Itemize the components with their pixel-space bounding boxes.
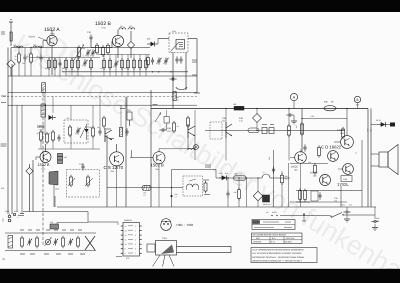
IF transformer box1: [64, 117, 88, 143]
vertical x126: [125, 97, 127, 207]
capacitor C1: [22, 54, 27, 65]
wire col stubs A: [18, 47, 41, 76]
pot dark: [233, 103, 244, 110]
resistor R4: [54, 58, 57, 70]
svg-text:C S 12/70: C S 12/70: [104, 165, 124, 170]
svg-text:1502 B: 1502 B: [38, 163, 51, 167]
diode D4 right: [371, 119, 395, 127]
svg-text:14: 14: [125, 225, 127, 228]
wire y130: [205, 130, 345, 132]
capsule 49E2: [234, 172, 247, 180]
resistor R17: [139, 58, 142, 70]
wire x341: [340, 186, 342, 207]
label C304: [5, 210, 18, 213]
cluster stubs: [53, 97, 127, 130]
svg-text:1602: 1602: [37, 125, 45, 129]
svg-text:C302: C302: [341, 204, 345, 207]
svg-text:6: 6: [135, 248, 136, 251]
capacitor C3: [58, 60, 61, 67]
transistor Q8 output: [334, 108, 353, 149]
gang X symbol: [85, 236, 95, 250]
svg-text:C56: C56: [175, 193, 178, 196]
svg-text:C D 16022: C D 16022: [321, 144, 342, 149]
mid row stubs: [225, 108, 289, 161]
trimmer C11: [153, 105, 162, 123]
svg-text:10: 10: [125, 243, 127, 246]
wire col stubs B: [49, 48, 91, 77]
IF box row3: [183, 176, 203, 196]
mid bus y108: [151, 108, 368, 110]
det cell1 resistor: [70, 175, 73, 187]
label 43B: [239, 117, 243, 123]
label AA edge: [1, 32, 5, 190]
col x282: [281, 171, 289, 207]
svg-text:4k7: 4k7: [295, 125, 298, 128]
col x288: [247, 163, 289, 207]
label 1602: [37, 125, 45, 132]
capacitor C31 dark: [58, 154, 68, 164]
resistor R8: [90, 58, 93, 70]
IF row3 coil a: [187, 184, 193, 190]
det cell2 coil: [87, 175, 90, 187]
trimmer row 6: [62, 236, 65, 248]
resistor R2: [27, 52, 33, 64]
capacitor C62: [226, 178, 229, 207]
svg-text:T70b: T70b: [39, 129, 43, 132]
trimmer row 2: [27, 238, 32, 245]
svg-text:2: 2: [135, 229, 136, 232]
resistor R28: [187, 116, 190, 128]
resistor R3: [45, 58, 51, 70]
antenna: [9, 20, 13, 47]
node B circle: [354, 96, 360, 108]
resistor R31: [287, 124, 290, 137]
coil FL5: [128, 25, 135, 30]
label 1602L: [337, 129, 345, 135]
tuning labels top: [20, 229, 82, 231]
diamond node B: [127, 31, 134, 58]
capacitor C28: [127, 109, 132, 126]
capacitor C30: [87, 31, 93, 48]
svg-text:WELLENBEREICHE WAVE BANDS: WELLENBEREICHE WAVE BANDS: [253, 234, 287, 237]
speaker: [371, 145, 398, 175]
svg-text:-25mV: -25mV: [28, 36, 35, 39]
label 1502B mid: [151, 163, 164, 171]
svg-text:MA611B: MA611B: [124, 219, 132, 222]
supply rail a: [367, 109, 369, 208]
resistor R18: [145, 58, 148, 70]
tuner dashed box L4: [169, 30, 188, 53]
choke L5: [41, 93, 46, 135]
label 1702L: [337, 176, 352, 188]
dial mechanism: [147, 237, 231, 267]
wire left bus A2: [16, 105, 18, 211]
svg-text:49E2 1.2k: 49E2 1.2k: [234, 172, 242, 175]
bus stub left: [23, 211, 88, 213]
svg-text:C30: C30: [376, 217, 379, 220]
wire x362: [355, 140, 362, 207]
transistor Q4 arrows: [188, 124, 195, 138]
transistor Q6: [110, 144, 124, 207]
ground C302a: [344, 219, 350, 222]
label 16x: [205, 165, 211, 167]
cap pair right: [175, 56, 182, 63]
label M: [3, 257, 123, 262]
trimmer C4: [82, 59, 87, 66]
svg-text:1502 B: 1502 B: [151, 163, 164, 168]
svg-text:T301 ~ T303: T301 ~ T303: [176, 223, 193, 227]
resistor R32: [295, 122, 304, 136]
ground tick: [291, 115, 297, 124]
capacitor C9: [169, 77, 176, 80]
svg-text:9: 9: [125, 248, 126, 251]
dark comp A50B: [263, 195, 271, 206]
wire tuner out: [188, 38, 197, 40]
diamond node C: [26, 164, 33, 212]
svg-text:13: 13: [125, 229, 127, 232]
resistor R25 ntc: [119, 128, 128, 137]
detector box dashed: [67, 163, 100, 197]
svg-text:ALL VOLTAGES MEASURED AGAINST: ALL VOLTAGES MEASURED AGAINST CHASSIS: [252, 252, 302, 255]
svg-text:T304: T304: [162, 237, 168, 240]
wire left bus B: [11, 64, 13, 214]
tuner inner box: [171, 40, 185, 52]
tuning coil: [8, 236, 13, 249]
cap C48b: [300, 144, 307, 153]
capacitor C49: [334, 197, 337, 203]
svg-text:4: 4: [135, 238, 136, 241]
wire left bus C: [21, 105, 23, 213]
svg-text:1k: 1k: [177, 125, 179, 128]
svg-text:C304: C304: [5, 210, 9, 213]
trimmer row 4: [45, 238, 52, 247]
resistor R35: [299, 189, 302, 202]
coil FL4: [119, 25, 126, 30]
resistor R39: [203, 180, 210, 195]
IF t1 trimmer: [75, 126, 86, 138]
ground C302b: [372, 228, 378, 231]
vertical x195 lower: [194, 110, 199, 160]
diode D3: [219, 175, 229, 180]
long rail y105: [8, 104, 197, 106]
wire y202: [290, 201, 347, 203]
left edge labels: [1, 96, 7, 146]
bottom black bar: [0, 269, 400, 283]
long rail y92: [8, 92, 197, 94]
label 1502A: [44, 27, 60, 36]
wire jct: [152, 71, 172, 72]
trimmer row 8: [77, 236, 80, 248]
trimmer C4b: [85, 49, 90, 56]
transistor Q11: [320, 175, 331, 186]
svg-text:47b: 47b: [376, 220, 379, 223]
comp box L10b: [164, 110, 169, 130]
cap 45E: [50, 221, 59, 229]
vertical x151: [150, 90, 152, 207]
svg-text:M50b 103: M50b 103: [263, 203, 271, 206]
svg-text:M101: M101: [272, 211, 277, 214]
fuse capsule: [324, 101, 360, 111]
resistor R34: [234, 178, 241, 207]
cluster rail y149: [38, 135, 100, 149]
label bias: [28, 36, 47, 41]
svg-text:UKW/FM: UKW/FM: [253, 241, 261, 244]
svg-text:MESSGERAT 20 kOhm/V - GEMES: MESSGERAT 20 kOhm/V - GEMESSEN OHNE SIGN…: [252, 256, 305, 259]
resistor R36: [296, 189, 318, 202]
top black bar: [0, 0, 400, 12]
wire left bus A: [7, 48, 9, 215]
svg-text:1: 1: [135, 225, 136, 228]
resistor R5: [62, 58, 68, 70]
IF t1 resistor: [69, 125, 72, 137]
svg-text:470: 470: [334, 200, 337, 203]
vertical x173: [172, 53, 174, 109]
capacitor C2: [37, 54, 43, 61]
diode D2: [49, 115, 57, 120]
svg-text:FL5: FL5: [129, 25, 132, 28]
resistor R16: [133, 58, 136, 70]
wire x107: [106, 135, 108, 207]
svg-text:C50: C50: [367, 129, 370, 132]
resistor R11: [107, 43, 110, 55]
trimmer C7: [156, 57, 161, 64]
wire left mark: [18, 214, 24, 216]
tuning bus bottom: [5, 250, 96, 252]
svg-text:12: 12: [125, 234, 127, 237]
svg-text:1602C: 1602C: [291, 166, 299, 169]
resistor R20 hatched: [42, 83, 46, 93]
wire y187: [107, 187, 183, 189]
trimmer row 7: [68, 238, 73, 245]
wire y118: [301, 115, 347, 119]
svg-text:1502 B: 1502 B: [95, 21, 112, 27]
wire y169: [172, 169, 217, 171]
tuning labels bottom: [20, 253, 85, 255]
transistor QC 1602C: [290, 152, 306, 207]
transistor Q3 arrows: [105, 128, 112, 142]
svg-text:M: M: [3, 258, 5, 261]
IF row3 coil b: [189, 179, 199, 190]
capacitor C30b: [159, 127, 171, 133]
wire mid bus: [62, 71, 188, 73]
trimmer C6: [113, 60, 118, 67]
svg-text:B: B: [356, 98, 358, 102]
col x273: [268, 150, 275, 207]
svg-text:1602/L: 1602/L: [337, 129, 345, 132]
svg-text:MW: MW: [256, 237, 260, 240]
wire x55: [54, 196, 56, 207]
svg-text:2k: 2k: [27, 55, 29, 58]
capacitor C48: [318, 192, 321, 199]
wire row y54: [98, 54, 150, 56]
wire top bus: [11, 47, 150, 49]
resistor R24: [89, 126, 102, 138]
svg-text:C49: C49: [334, 197, 337, 200]
svg-text:C3B: C3B: [343, 178, 348, 181]
vertical x186: [185, 53, 187, 91]
transistor Q7 arrows: [226, 122, 232, 138]
trimmer row 5: [53, 238, 58, 245]
svg-text:C5b: C5b: [268, 157, 271, 160]
svg-text:L6: L6: [263, 171, 265, 174]
supply rail b: [370, 109, 372, 208]
svg-text:ALLE SPANNUNGEN GEGEN MASSE GE: ALLE SPANNUNGEN GEGEN MASSE GEMESSEN: [252, 249, 303, 252]
resistor R33: [342, 127, 345, 139]
wire col stubs C: [104, 55, 146, 77]
resistor R22: [46, 132, 49, 144]
svg-text:ABWEICHUNGEN MOEGLICH +/- 20%: ABWEICHUNGEN MOEGLICH +/- 20% BEI 9V BAT…: [252, 259, 302, 262]
svg-text:1620 kHz: 1620 kHz: [286, 237, 294, 240]
transistor Q10: [338, 164, 353, 175]
dash-dot vertical: [42, 88, 44, 245]
tuning bus top: [5, 232, 96, 234]
det cell2 arrow: [85, 178, 93, 186]
title box wavebands: [252, 233, 303, 244]
svg-text:104 MHz: 104 MHz: [284, 241, 292, 244]
cluster pair: [147, 55, 155, 66]
transistor Q6b 1502B: [130, 149, 195, 207]
wire q5 col: [32, 160, 34, 212]
wire y190: [296, 190, 362, 192]
svg-text:FL4: FL4: [120, 25, 123, 28]
trimmer row 3: [36, 236, 39, 248]
bus y222 left: [57, 222, 88, 224]
detector bus y178: [216, 177, 290, 178]
svg-text:C305: C305: [14, 210, 18, 213]
capacitor C10: [57, 134, 60, 141]
wire to tuner box: [158, 39, 169, 45]
transistor Q5: [36, 144, 51, 163]
trimmer row 1: [21, 236, 24, 248]
label CD1602: [321, 144, 342, 149]
trimmer C5: [90, 49, 95, 56]
diamond node D: [253, 114, 262, 123]
switch row: [266, 211, 375, 218]
diode D1: [147, 38, 158, 47]
box C63: [262, 128, 267, 134]
svg-text:AA: AA: [1, 187, 5, 190]
resistor R27: [173, 121, 179, 133]
svg-text:10n: 10n: [167, 130, 170, 133]
capacitor C102: [286, 110, 294, 120]
earpiece symbol: [49, 171, 59, 207]
svg-text:C51: C51: [370, 129, 373, 132]
resistor R23: [49, 130, 55, 142]
wire row y57: [30, 57, 100, 59]
svg-text:8: 8: [125, 252, 126, 255]
svg-text:L1b: L1b: [33, 43, 36, 46]
svg-text:1.2k: 1.2k: [239, 120, 243, 123]
wire x302: [301, 109, 303, 153]
resistor R6: [71, 58, 74, 70]
coil L1b: [33, 43, 42, 47]
svg-text:T30a: T30a: [41, 167, 45, 170]
wire x171: [170, 170, 177, 208]
svg-text:103: 103: [22, 62, 25, 65]
capacitor C302a: [341, 204, 352, 219]
wire x216: [215, 170, 217, 179]
svg-text:1702L: 1702L: [337, 182, 349, 187]
capacitor C302b: [371, 207, 379, 227]
ground bus top section: [8, 75, 197, 77]
label L50E: [219, 172, 230, 175]
vertical right bus top: [192, 39, 200, 94]
svg-text:11: 11: [125, 238, 127, 241]
coil hump: [262, 171, 270, 178]
resistor R13: [109, 58, 112, 70]
svg-text:7: 7: [135, 252, 136, 255]
svg-text:3: 3: [135, 234, 136, 237]
IC U301 pinout: [121, 219, 142, 260]
det cell1 arrow: [68, 178, 75, 186]
svg-text:43B: 43B: [239, 117, 243, 120]
resistor R7: [77, 58, 80, 70]
pads C305: [13, 213, 18, 219]
resistor R10: [102, 45, 105, 57]
svg-text:L7: L7: [355, 152, 357, 155]
label 1602C b: [310, 172, 318, 178]
svg-text:5: 5: [135, 243, 136, 246]
svg-text:C44b: C44b: [55, 188, 59, 191]
long dash rail: [3, 96, 197, 98]
trimmer C8: [163, 57, 168, 64]
pot S2E: [74, 45, 86, 61]
wire y163: [290, 162, 328, 164]
agc dashed box: [210, 122, 222, 139]
labels mid cluster: [106, 109, 125, 139]
resistor R12: [100, 58, 106, 70]
resistor R21: [37, 130, 43, 142]
bus stub left2: [88, 212, 118, 226]
svg-text:L6: L6: [159, 113, 161, 116]
transistor Q9: [328, 151, 339, 162]
resistor R14: [121, 58, 124, 70]
wire q2 base: [91, 41, 112, 48]
transistor Q1 1502A: [43, 30, 57, 75]
label C90: [222, 117, 227, 123]
svg-text:T30b: T30b: [110, 170, 114, 173]
box C64: [269, 128, 274, 134]
svg-text:5k: 5k: [15, 55, 17, 58]
title box notes: [251, 248, 317, 263]
transistor Q2 1502B: [112, 30, 123, 59]
svg-text:40: 40: [37, 55, 39, 58]
coil L1a: [13, 43, 23, 47]
svg-text:C28: C28: [127, 109, 130, 112]
resistor R9: [96, 43, 99, 55]
svg-text:AV B: AV B: [376, 119, 381, 122]
diamond node E: [253, 178, 263, 207]
svg-text:60E: 60E: [324, 101, 328, 104]
transistor case icon: [161, 219, 194, 231]
label 1502B: [95, 21, 112, 30]
resistor R15: [124, 58, 130, 70]
label C50: [367, 129, 373, 132]
coil L6: [188, 138, 194, 150]
capsule R30: [248, 128, 259, 133]
title box fuse: [252, 220, 295, 230]
node A circle: [290, 93, 297, 108]
resistor R1: [15, 52, 21, 64]
label CS12/70: [104, 165, 124, 173]
resistor R19 hatched: [173, 92, 180, 102]
svg-text:1-2: 1-2: [143, 194, 146, 197]
coil arc: [176, 87, 187, 90]
svg-text:1k: 1k: [15, 58, 17, 61]
resistor R26: [103, 116, 106, 128]
svg-text:C48b: C48b: [300, 149, 303, 153]
label 1502B lower: [38, 163, 51, 170]
